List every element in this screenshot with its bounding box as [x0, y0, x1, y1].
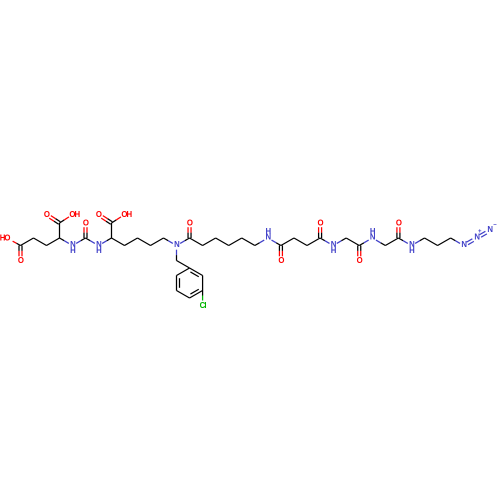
- amide4 C-N6: [359, 240, 368, 245]
- bond A20-A21: [151, 238, 164, 246]
- svg-text:O: O: [96, 210, 102, 219]
- amide O: [278, 256, 284, 265]
- chain: [47, 238, 60, 246]
- urea C=O: [84, 227, 87, 238]
- bond A40-A41: [346, 238, 359, 246]
- alpha2-COOH2 C: [111, 223, 113, 238]
- ureaC-N2: [86, 238, 95, 243]
- amide N-H: [370, 227, 376, 242]
- bond A49-A50: [438, 238, 451, 246]
- bond A44-A45: [385, 238, 398, 246]
- HO left acid to C: [13, 241, 21, 245]
- amide N-H: [266, 227, 272, 242]
- svg-text:O: O: [318, 219, 324, 228]
- svg-text:Cl: Cl: [200, 301, 207, 310]
- N1-ureaC: [76, 238, 85, 243]
- amide4 C=O: [358, 246, 361, 257]
- bond A30-A31: [242, 238, 255, 246]
- hydroxyl OH: [121, 210, 132, 219]
- amide N-H: [331, 240, 337, 255]
- ring: [190, 268, 203, 277]
- urea N-H left: [70, 240, 76, 255]
- azide N=N: [467, 239, 474, 245]
- ring: [190, 289, 203, 298]
- chain-N4: [255, 240, 264, 245]
- hydroxyl HO (left acid): [0, 233, 10, 242]
- Cl substituent: [200, 301, 207, 310]
- bond A48-A49: [425, 238, 438, 246]
- svg-text:O: O: [396, 219, 402, 228]
- azide N1: [461, 240, 467, 249]
- svg-text:OH: OH: [121, 210, 132, 219]
- N3-amide1 C: [180, 238, 189, 243]
- svg-text:O: O: [83, 219, 89, 228]
- chain: [21, 238, 34, 246]
- ring-Cl: [202, 291, 204, 301]
- amide2 C=O: [279, 246, 282, 257]
- bond A47-A48: [415, 238, 424, 243]
- bond A43-A44: [376, 240, 385, 245]
- amide3 C-N5: [320, 238, 329, 243]
- bond A27-A28: [203, 238, 216, 246]
- tertiary amine N: [174, 240, 180, 249]
- svg-text:O: O: [187, 219, 193, 228]
- bond A33-A35: [281, 238, 294, 246]
- svg-text:OH: OH: [69, 210, 80, 219]
- bond A39-A40: [337, 238, 346, 243]
- alpha1-N1: [60, 238, 69, 243]
- amide5 C=O: [397, 227, 400, 238]
- N4-amide2 C: [272, 240, 281, 245]
- bond A28-A29: [216, 238, 229, 246]
- left acid C=O: [19, 246, 22, 257]
- svg-text:O: O: [18, 256, 24, 265]
- bond A18-A19: [125, 238, 138, 246]
- ring: [177, 276, 180, 291]
- azide N=N: [480, 231, 487, 237]
- side chain: [112, 238, 125, 246]
- hydroxyl OH: [69, 210, 80, 219]
- N2-alpha2: [102, 238, 111, 243]
- ring: [177, 268, 190, 276]
- amide5 C-N7: [398, 238, 407, 243]
- bond A36-A37: [307, 238, 320, 246]
- azide N2 (+): [474, 229, 482, 242]
- amide3 C=O: [319, 227, 322, 238]
- COOH2 C-OH: [112, 217, 121, 223]
- svg-text:O: O: [44, 210, 50, 219]
- urea N-H right: [96, 240, 102, 255]
- carbonyl O: [44, 210, 50, 219]
- ring: [177, 291, 190, 299]
- COOH1 C=O: [49, 216, 60, 225]
- ring: [202, 276, 204, 291]
- carbonyl O: [18, 256, 24, 265]
- amide O: [318, 219, 324, 228]
- amide O: [357, 256, 363, 265]
- svg-text:O: O: [278, 256, 284, 265]
- CH2-ring: [177, 261, 190, 269]
- N3-benzyl CH2: [176, 250, 178, 261]
- amide1 C=O: [188, 227, 191, 238]
- azide N3 (-): [487, 223, 497, 235]
- propyl-N8: [451, 238, 460, 243]
- COOH2 C=O: [101, 216, 112, 225]
- amide O: [396, 219, 402, 228]
- chain: [34, 238, 47, 246]
- bond A29-A30: [229, 238, 242, 246]
- amide N-H: [409, 240, 415, 255]
- bond A35-A36: [294, 238, 307, 246]
- bond A25-A27: [190, 238, 203, 246]
- svg-text:O: O: [357, 256, 363, 265]
- svg-text:HO: HO: [0, 233, 10, 242]
- amide O: [187, 219, 193, 228]
- urea O: [83, 219, 89, 228]
- COOH1 C-OH: [60, 217, 69, 223]
- carbonyl O: [96, 210, 102, 219]
- alpha1 to COOH1 C: [59, 223, 61, 238]
- chain-N3: [164, 238, 173, 243]
- bond A19-A20: [138, 238, 151, 246]
